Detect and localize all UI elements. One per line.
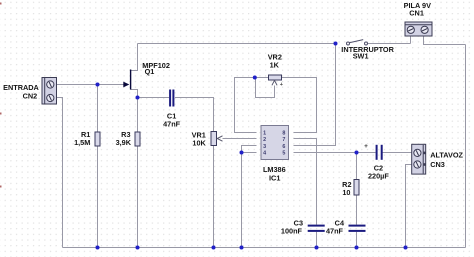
svg-text:CN1: CN1 <box>409 8 424 17</box>
potentiometer VR2 <box>269 75 282 85</box>
capacitor C1 <box>169 90 174 107</box>
transistor Q1 MPF102 JFET <box>123 70 131 90</box>
wire: CN2 upper pin to Q1 gate <box>57 84 124 86</box>
wire: IC1 pins 3 and 4 tied to ground <box>242 146 257 248</box>
svg-text:2: 2 <box>263 137 266 143</box>
capacitor C3 <box>308 225 325 232</box>
wire: CN3 lower pin down to ground bus <box>406 165 412 248</box>
wire: right edge V+ return down to ground bus <box>465 45 467 248</box>
junction node bus VR1 <box>212 246 216 250</box>
wire: R1 vertical branch <box>97 85 99 248</box>
junction node bus IC ground <box>240 246 244 250</box>
switch SW1 INTERRUPTOR <box>347 40 368 45</box>
wire: R2 C4 zobel branch <box>356 153 358 248</box>
wire: VR2 right lead down to IC1 pin 8 <box>282 78 317 133</box>
svg-text:CN2: CN2 <box>23 91 38 100</box>
wire: output node to C2 and C2 to CN3 upper pin <box>357 152 412 154</box>
wire: R3 vertical branch <box>137 98 139 248</box>
svg-text:10K: 10K <box>192 139 206 148</box>
junction node bus CN3 <box>404 246 408 250</box>
junction node V+ rail to pin6 <box>334 42 338 46</box>
svg-text:8: 8 <box>282 131 285 137</box>
svg-text:SW1: SW1 <box>353 51 369 60</box>
svg-text:1,5M: 1,5M <box>74 138 90 147</box>
potentiometer VR1 <box>211 132 223 146</box>
IC IC1 LM386 body <box>261 126 289 160</box>
wire: top supply rail from Q1 drain to SW1 and CN1 <box>138 36 466 45</box>
capacitor C2 polarized <box>376 145 383 160</box>
svg-text:1: 1 <box>263 131 266 137</box>
svg-text:47nF: 47nF <box>163 119 181 128</box>
svg-text:7: 7 <box>282 137 285 143</box>
junction node output pin5 R2 C2 <box>355 151 359 155</box>
svg-text:6: 6 <box>282 144 285 150</box>
junction node bus C3 <box>315 246 319 250</box>
capacitor C4 <box>349 225 366 232</box>
svg-text:100nF: 100nF <box>281 226 303 235</box>
svg-text:10: 10 <box>342 188 350 197</box>
svg-text:Q1: Q1 <box>145 67 155 76</box>
svg-text:5: 5 <box>282 150 285 156</box>
junction node bus R3 <box>136 246 140 250</box>
svg-text:+: + <box>280 82 283 88</box>
junction node bus R1 <box>96 246 100 250</box>
svg-text:+: + <box>364 143 368 150</box>
wire: source node to C1 and C1 to VR1 top <box>138 98 214 132</box>
wire: IC1 pin 5 output to node <box>294 152 357 154</box>
junction node pins 3-4 ground <box>240 151 244 155</box>
svg-text:IC1: IC1 <box>269 174 280 183</box>
svg-text:3: 3 <box>263 144 266 150</box>
wire: IC1 pin 6 to V+ rail <box>294 44 336 146</box>
svg-text:CN3: CN3 <box>430 160 445 169</box>
resistor R3 <box>135 132 140 146</box>
junction node Q1 source R3 C1 <box>136 96 140 100</box>
connector CN3 ALTAVOZ <box>412 144 426 174</box>
wire: VR1 wiper to IC1 pin 2 <box>223 138 257 140</box>
wire: left edge from CN2 lower pin to ground bus <box>57 98 63 248</box>
svg-text:4: 4 <box>263 150 266 156</box>
wire: Q1 source lead down to node <box>131 90 138 98</box>
resistor R2 <box>354 180 359 196</box>
junction node bus C4 <box>355 246 359 250</box>
resistor R1 <box>95 132 100 146</box>
svg-text:ALTAVOZ: ALTAVOZ <box>430 151 463 160</box>
connector CN1 PILA 9V <box>405 22 432 36</box>
junction node VR2 wiper <box>253 76 257 80</box>
wire: IC1 pin 1 up and over to VR2 left <box>235 78 269 133</box>
svg-text:1K: 1K <box>270 60 280 69</box>
wire: C3 bottom to ground bus <box>316 232 318 248</box>
wire: VR2 wiper return to left lead <box>256 78 275 98</box>
wire: Q1 drain lead up to rail <box>131 44 138 71</box>
svg-text:47nF: 47nF <box>326 226 344 235</box>
svg-text:3,9K: 3,9K <box>116 138 132 147</box>
wire: bottom ground bus <box>63 247 466 249</box>
junction node R1 top <box>96 83 100 87</box>
wire: VR1 bottom to ground bus <box>213 146 215 248</box>
connector CN2 ENTRADA <box>42 78 57 105</box>
wire: IC1 pin 7 down to C3 <box>294 139 317 225</box>
svg-text:220µF: 220µF <box>368 171 389 180</box>
